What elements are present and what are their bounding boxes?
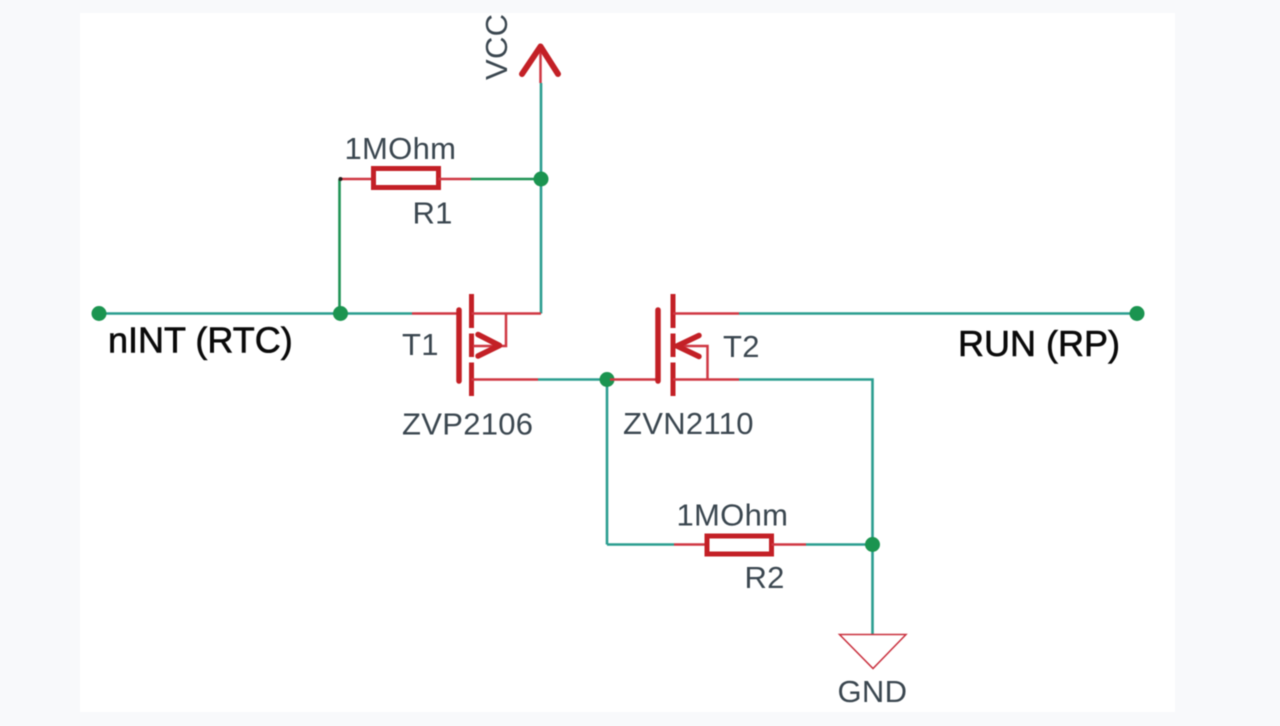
svg-text:ZVP2106: ZVP2106 [402, 407, 533, 442]
node nINT endpoint dot [92, 306, 107, 321]
label GND [838, 674, 908, 709]
pin T2 drain top [673, 312, 739, 315]
pin T1 source bottom [472, 378, 539, 381]
wire vertical R1 left leg [338, 179, 341, 314]
T2 arrow (points left) [677, 336, 699, 357]
designator T2 [723, 329, 760, 364]
net label RUN (RP) [958, 323, 1120, 364]
designator R1 [413, 196, 453, 231]
wire T2 source right then down [739, 380, 873, 545]
svg-text:R1: R1 [413, 196, 453, 231]
node junction dot at R1/gate [333, 306, 348, 321]
node A junction dot [600, 372, 615, 387]
svg-text:GND: GND [838, 674, 908, 709]
wire R1 right to VCC node [471, 178, 541, 181]
T2 channel segments [671, 294, 676, 328]
designator R2 [745, 560, 785, 595]
net label nINT (RTC) [108, 320, 293, 361]
T1 bulk connection [473, 314, 506, 347]
wire T2 drain to RUN [739, 312, 1137, 315]
wire T1 source to node A [538, 378, 607, 381]
svg-text:VCC: VCC [479, 14, 514, 80]
wire node B to GND [871, 545, 874, 635]
transistor T1 ZVP2106 [412, 294, 541, 396]
wire nINT horizontal [99, 312, 341, 315]
resistor R2 [674, 536, 806, 554]
svg-text:1MOhm: 1MOhm [677, 498, 789, 533]
value 1MOhm of R1 [345, 131, 457, 166]
svg-text:ZVN2110: ZVN2110 [623, 406, 754, 441]
designator T1 [402, 327, 439, 362]
label VCC [479, 14, 514, 80]
T1 channel segments [469, 294, 474, 328]
svg-text:T1: T1 [402, 327, 439, 362]
pin T1 gate [412, 312, 457, 315]
value 1MOhm of R2 [677, 498, 789, 533]
T1 arrow (points right) [478, 335, 500, 357]
svg-text:RUN (RP): RUN (RP) [958, 323, 1120, 364]
svg-text:1MOhm: 1MOhm [345, 131, 457, 166]
pin T1 drain top [472, 312, 542, 315]
svg-text:nINT (RTC): nINT (RTC) [108, 320, 293, 361]
T1 gate bar [456, 310, 462, 381]
T2 gate bar [655, 310, 661, 381]
transistor T2 ZVN2110 [610, 294, 739, 396]
wire R2 right to node B [806, 543, 873, 546]
wire junction to T1 gate [341, 312, 413, 315]
value ZVN2110 [623, 406, 754, 441]
wire VCC vertical [540, 83, 543, 314]
node RUN endpoint dot [1130, 306, 1145, 321]
wire node A down [606, 380, 609, 545]
svg-text:R2: R2 [745, 560, 785, 595]
pin T2 source bottom [673, 378, 739, 381]
value ZVP2106 [402, 407, 533, 442]
ground symbol [840, 635, 907, 669]
wire to R2 left [607, 543, 674, 546]
T2 bulk connection [677, 346, 708, 380]
node B junction dot [865, 537, 880, 552]
pin T2 gate [610, 378, 656, 381]
node junction dot VCC/R1 [534, 172, 549, 187]
power VCC symbol [522, 46, 558, 83]
svg-text:T2: T2 [723, 329, 760, 364]
resistor R1 [339, 169, 472, 188]
